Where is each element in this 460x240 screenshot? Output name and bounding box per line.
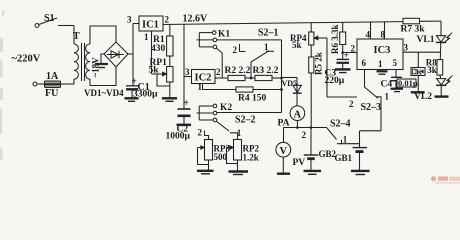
wire K1 to S2-1 xyxy=(217,39,282,41)
svg-text:A: A xyxy=(294,110,302,121)
LED VL2 xyxy=(414,75,453,101)
svg-text:5: 5 xyxy=(393,58,398,68)
timer IC3 xyxy=(343,22,409,70)
svg-text:PA: PA xyxy=(278,118,290,128)
svg-text:~220V: ~220V xyxy=(12,54,41,65)
ground (RP3) xyxy=(197,171,214,174)
capacitor C2 1000µ xyxy=(166,98,192,142)
relay contact K2 xyxy=(197,103,233,122)
svg-text:VD1~VD4: VD1~VD4 xyxy=(84,88,124,98)
switch S2-2 xyxy=(198,114,256,139)
svg-text:2: 2 xyxy=(233,45,238,55)
svg-text:12.6V: 12.6V xyxy=(183,14,209,25)
svg-text:T: T xyxy=(73,31,80,42)
svg-text:R7 3k: R7 3k xyxy=(401,25,426,35)
wire secondary top xyxy=(90,26,116,44)
svg-text:1: 1 xyxy=(264,42,269,52)
svg-text:6: 6 xyxy=(362,58,367,68)
wire main vertical bus xyxy=(281,40,283,113)
bridge rectifier VD1~VD4 xyxy=(84,42,128,98)
svg-text:VD5: VD5 xyxy=(282,79,298,88)
svg-text:3300µ: 3300µ xyxy=(133,90,158,100)
svg-text:3: 3 xyxy=(127,15,132,25)
capacitor C4 0.01µ xyxy=(381,70,418,90)
svg-text:4: 4 xyxy=(366,30,371,40)
wire K2 to bus xyxy=(217,112,282,114)
ground (GB1) xyxy=(351,171,370,175)
svg-text:2: 2 xyxy=(216,67,221,77)
ground (IC3 pin 1) xyxy=(377,70,388,75)
svg-text:PV: PV xyxy=(293,158,306,168)
svg-text:8: 8 xyxy=(381,30,386,40)
svg-text:R2 2.2: R2 2.2 xyxy=(225,66,251,76)
diode VD5 xyxy=(282,78,302,107)
ammeter PA xyxy=(278,106,305,128)
regulator IC2 xyxy=(184,67,221,92)
resistor R4 150 xyxy=(203,84,282,104)
potentiometer RP2 1.2k xyxy=(227,140,260,172)
svg-text:500: 500 xyxy=(214,152,228,162)
node R2-R3 junction xyxy=(250,77,253,80)
ground (C3) xyxy=(335,69,351,72)
svg-text:3: 3 xyxy=(404,43,409,53)
transformer T xyxy=(73,31,101,81)
svg-text:1A: 1A xyxy=(46,71,59,82)
resistor R2 2.2 xyxy=(215,66,255,81)
svg-text:2: 2 xyxy=(349,99,354,109)
LED VL1 xyxy=(417,21,453,60)
svg-text:R6 3.3k: R6 3.3k xyxy=(330,24,340,54)
ground (VL2) xyxy=(435,95,449,97)
switch S2-3 xyxy=(327,70,390,131)
wire bridge + output xyxy=(128,24,133,86)
resistor R3 2.2 xyxy=(253,66,282,81)
svg-text:GB1: GB1 xyxy=(335,153,353,163)
svg-text:IC1: IC1 xyxy=(142,20,159,31)
svg-text:3k: 3k xyxy=(427,65,437,75)
scan noise left edge xyxy=(0,10,4,160)
svg-text:1: 1 xyxy=(144,32,149,42)
ground (C4) xyxy=(391,89,404,92)
switch S1 xyxy=(35,13,74,28)
relay contact K1 xyxy=(197,30,231,78)
svg-text:1: 1 xyxy=(378,59,383,69)
svg-text:R5 2k: R5 2k xyxy=(314,52,324,75)
svg-text:S2–3: S2–3 xyxy=(361,102,382,113)
svg-text:IC3: IC3 xyxy=(374,45,391,56)
svg-text:2: 2 xyxy=(198,128,203,138)
wire IC3 pin 3 xyxy=(403,51,441,53)
svg-text:2: 2 xyxy=(351,44,356,54)
fuse FU 1A xyxy=(33,71,74,99)
ground (PV) xyxy=(277,172,290,174)
wire sense line xyxy=(284,127,328,129)
resistor R7 3k xyxy=(401,18,442,34)
svg-text:2: 2 xyxy=(302,130,307,140)
svg-text:R3 2.2: R3 2.2 xyxy=(253,66,279,76)
svg-text:3: 3 xyxy=(185,67,190,77)
svg-text:V: V xyxy=(280,146,288,157)
svg-text:S2–4: S2–4 xyxy=(330,118,351,129)
regulator IC1 xyxy=(127,15,170,75)
potentiometer RP1 5k xyxy=(149,58,174,98)
capacitor C3 220µ xyxy=(325,51,350,86)
switch S2-1 xyxy=(233,28,279,79)
svg-text:1: 1 xyxy=(198,82,203,92)
svg-text:430: 430 xyxy=(151,44,166,54)
svg-text:1: 1 xyxy=(343,135,348,145)
resistor R5 2k xyxy=(309,52,324,127)
capacitor C1 3300µ xyxy=(125,77,159,101)
resistor R1 430 xyxy=(151,24,173,66)
svg-text:5k: 5k xyxy=(292,40,302,50)
svg-text:R4 150: R4 150 xyxy=(238,94,266,104)
ground (bridge left) xyxy=(95,54,108,68)
battery GB1 xyxy=(335,131,368,171)
svg-text:S1: S1 xyxy=(44,13,55,24)
svg-text:1.2k: 1.2k xyxy=(243,153,259,163)
svg-text:220µ: 220µ xyxy=(325,76,345,86)
svg-text:1: 1 xyxy=(385,92,390,102)
voltmeter PV xyxy=(276,128,305,174)
svg-text:2: 2 xyxy=(165,15,170,25)
svg-text:1000µ: 1000µ xyxy=(166,132,191,142)
ground (GB2) xyxy=(304,171,322,174)
svg-text:+: + xyxy=(183,98,189,109)
svg-text:VL2: VL2 xyxy=(414,92,432,102)
potentiometer RP3 500 xyxy=(198,140,231,171)
ground (RP1) xyxy=(162,98,177,101)
node 12.6V rail xyxy=(163,14,403,25)
svg-text:FU: FU xyxy=(45,88,58,99)
resistor R8 3k xyxy=(426,58,443,79)
svg-text:K2: K2 xyxy=(220,103,232,113)
wire secondary bottom xyxy=(90,67,116,86)
watermark xyxy=(431,176,460,184)
svg-text:VL1: VL1 xyxy=(417,35,435,45)
wire xyxy=(73,26,75,45)
svg-text:0.01µ: 0.01µ xyxy=(398,78,418,88)
wire xyxy=(73,79,75,84)
battery GB2 xyxy=(302,128,337,171)
ground (RP2) xyxy=(229,172,249,175)
svg-text:5k: 5k xyxy=(149,66,160,76)
potentiometer RP4 5k xyxy=(290,23,327,97)
svg-text:S2–1: S2–1 xyxy=(258,28,279,39)
switch S2-4 xyxy=(327,118,360,144)
resistor R6 3.3k xyxy=(330,22,357,54)
relay coil K xyxy=(411,68,425,93)
svg-text:K1: K1 xyxy=(218,30,230,40)
svg-text:S2–2: S2–2 xyxy=(235,114,256,125)
wire rail to IC2 xyxy=(183,24,185,108)
